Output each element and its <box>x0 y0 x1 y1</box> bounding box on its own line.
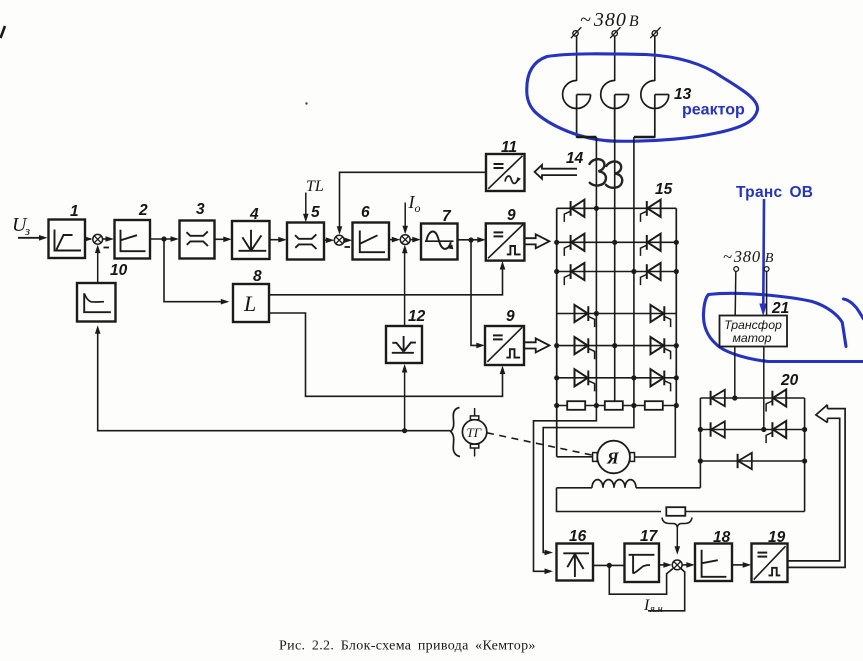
block 8 logic L <box>233 284 269 322</box>
wire block8 bottom output to block9 lower bottom <box>269 313 503 396</box>
block 3 limiter <box>180 221 215 259</box>
terminal phase 1 <box>573 31 578 36</box>
wire transformer left lead to row1 <box>734 347 736 399</box>
thyristor VS2b <box>646 235 648 250</box>
block 16 EMF sensor <box>557 544 594 581</box>
svg-text:15: 15 <box>655 181 673 198</box>
terminal phase 3 <box>652 31 657 36</box>
wire tacho feedback into block10 <box>98 329 451 431</box>
thyristor VS3a <box>570 264 572 279</box>
block20 row2 wire <box>700 429 804 431</box>
bridge left rail <box>556 208 558 456</box>
wire choke line left part <box>557 487 593 489</box>
block 18 regulator <box>695 544 732 582</box>
hollow arrow block9 upper to bridge <box>524 234 549 248</box>
thyristor VS5b <box>663 338 665 353</box>
block20 dots <box>732 395 737 400</box>
wire U3 input <box>18 237 44 239</box>
terminal phase 2 <box>612 31 617 36</box>
thyristor VS6b <box>663 371 665 386</box>
bridge row 5 wire <box>557 345 677 347</box>
wire terminal to transformer left <box>734 271 737 315</box>
wire block12 output up into S3 <box>404 248 406 326</box>
svg-text:реактор: реактор <box>682 102 745 119</box>
svg-text:1: 1 <box>70 203 79 220</box>
svg-text:Я: Я <box>606 449 620 468</box>
motor armature Ya <box>597 441 630 474</box>
block20 row3 wire <box>700 460 804 462</box>
wire phase A jog <box>577 136 597 138</box>
handwritten mark ZZ <box>590 159 606 185</box>
wire left rail to motor <box>557 456 593 458</box>
resistor R2 <box>605 401 623 410</box>
resistor R1 <box>567 401 585 410</box>
thyristor VS1a <box>570 201 572 216</box>
wire terminal 1 to reactor <box>576 36 578 81</box>
junction after block16 <box>607 563 612 568</box>
summing junction S4 <box>672 560 682 570</box>
wire block10 up into S1 <box>97 248 99 283</box>
svg-text:матор: матор <box>732 331 771 345</box>
block 1 ramp generator <box>49 220 86 259</box>
wire choke line right part <box>636 487 700 489</box>
wire phase B down <box>614 95 616 402</box>
bridge row 4 wire <box>557 313 677 315</box>
wire shunt signal down into S4 <box>676 528 678 552</box>
blue freehand loop around reactors <box>527 54 758 141</box>
thyristor VS20a <box>771 391 773 406</box>
wire choke down to shunt line <box>557 488 662 512</box>
svg-text:21: 21 <box>771 300 789 317</box>
svg-text:Трансфор: Трансфор <box>724 318 782 332</box>
reactor L3 (13) winding <box>641 81 669 109</box>
tachogenerator TG brace <box>451 408 460 457</box>
block 4 <box>232 221 270 259</box>
wire TL input down into block5 <box>305 193 307 219</box>
bridge row 1 wire <box>557 207 677 209</box>
wire terminal to transformer right <box>766 271 768 315</box>
summing junction S1 <box>93 234 103 244</box>
bridge row 2 wire <box>557 241 677 243</box>
svg-text:~380В: ~380В <box>580 9 640 31</box>
scan speck near TL <box>305 102 307 104</box>
svg-text:o: o <box>415 201 421 215</box>
wire into block9 lower from junction <box>471 240 482 345</box>
summing junction S2 <box>334 235 344 245</box>
minus sign at S1 <box>104 247 110 249</box>
wire block8 top output to block9 upper bottom <box>269 265 503 295</box>
resistor row dots <box>554 403 559 408</box>
wire motor right to right rail <box>635 406 676 458</box>
reactor L1 (13) winding <box>563 81 591 109</box>
reactor L2 (13) winding <box>601 81 629 109</box>
svg-text:ТГ: ТГ <box>467 425 482 440</box>
wire block7 to block9 <box>458 239 483 241</box>
svg-text:3: 3 <box>196 201 205 218</box>
block 2 PI regulator <box>115 220 151 259</box>
bridge row 3 wire <box>557 271 677 273</box>
wire phase C down <box>633 137 635 406</box>
thyristor VS4a <box>587 306 589 321</box>
svg-text:9: 9 <box>507 207 516 224</box>
block 9 lower pulse converter <box>485 326 524 365</box>
wire block4 to block5 <box>270 239 284 241</box>
svg-text:10: 10 <box>110 262 128 279</box>
svg-text:8: 8 <box>253 268 262 285</box>
diode VD2 <box>710 422 712 436</box>
thyristor VS1b <box>646 201 648 216</box>
resistor R3 <box>645 401 663 410</box>
block 19 pulse converter <box>752 544 788 583</box>
bridge right rail <box>675 208 677 405</box>
wire shunt to block20 right rail <box>685 511 804 513</box>
block20 right rail <box>804 398 806 512</box>
block20 left rail <box>699 398 701 488</box>
bridge row 6 wire <box>557 377 677 379</box>
svg-text:я.н: я.н <box>649 604 663 615</box>
thyristor VS3b <box>646 264 648 279</box>
wire feedback from block11 down into S2 <box>340 172 487 228</box>
svg-text:ТрансОВ: ТрансОВ <box>736 184 813 201</box>
block 17 filter <box>625 544 660 583</box>
wire block1 to S1 <box>85 238 91 240</box>
wire phase A down <box>595 137 597 406</box>
wire S1 to block2 <box>103 238 111 240</box>
block20 row1 wire <box>700 397 804 399</box>
wire S2 to block6 <box>344 239 349 241</box>
thyristor VS6a <box>587 371 589 386</box>
shunt resistor <box>666 507 685 516</box>
tachogenerator TG <box>462 420 486 444</box>
thyristor VS2a <box>570 235 572 250</box>
minus sign at S2 <box>345 246 351 248</box>
svg-text:L: L <box>243 291 256 316</box>
wire block16 to block17 <box>593 564 625 566</box>
junction after block7 <box>468 237 473 242</box>
hollow arrow 14 into block 11 <box>535 165 577 179</box>
wire terminal 2 to reactor <box>614 36 616 81</box>
brace under shunt <box>662 518 692 528</box>
svg-text:Рис. 2.2. Блок-схема привода «: Рис. 2.2. Блок-схема привода «Кемтор» <box>279 639 536 654</box>
block 11 DC-AC converter <box>486 154 525 191</box>
diode VD3 <box>737 454 739 468</box>
svg-text:12: 12 <box>408 308 426 325</box>
smoothing choke <box>592 480 636 488</box>
block 6 regulator <box>353 223 390 260</box>
wire block3 to block4 <box>215 238 229 240</box>
block 7 sine shaper <box>421 224 458 260</box>
svg-text:6: 6 <box>361 204 370 221</box>
svg-text:14: 14 <box>566 150 584 167</box>
svg-text:з: з <box>24 223 30 238</box>
terminal transformer right <box>764 267 769 272</box>
thyristor VS4b <box>663 306 665 321</box>
block 5 limiter <box>287 223 324 260</box>
summing junction S3 <box>400 235 410 245</box>
transformer block 21 <box>720 316 788 347</box>
resistor row wire <box>557 405 677 407</box>
wire block6 to S3 <box>389 239 397 241</box>
block 10 speed feedback filter <box>77 283 116 322</box>
dashed shaft line TG to motor <box>487 433 593 455</box>
hollow arrow loop block19 to block20 <box>788 405 845 568</box>
blue arrow down to transformer <box>762 199 765 305</box>
thyristor VS5a <box>587 338 589 353</box>
junction after block2 <box>161 236 166 241</box>
wire tap phase A to block16 lower input <box>534 406 597 572</box>
svg-text:TL: TL <box>306 178 324 195</box>
wire S4 to block18 <box>682 564 691 566</box>
junction feedback/block12 <box>402 428 407 433</box>
blue freehand loop around transformer 21 <box>703 293 863 361</box>
wire feedback up into block12 <box>404 368 406 431</box>
svg-text:2: 2 <box>138 202 148 219</box>
terminal transformer left <box>734 267 739 272</box>
svg-text:13: 13 <box>674 86 692 103</box>
wire terminal 3 to reactor <box>654 36 656 81</box>
wire Io input into S3 <box>404 203 406 228</box>
bridge junction dots <box>594 206 599 211</box>
wire S3 to block7 <box>410 239 417 241</box>
block 9 upper pulse converter <box>486 223 525 260</box>
svg-text:20: 20 <box>780 372 799 389</box>
hollow arrow block9 lower to bridge <box>524 338 549 352</box>
wire transformer right lead to row2 <box>763 347 765 430</box>
diode VD1 <box>710 391 712 405</box>
wire block17 to S4 <box>659 564 669 566</box>
scan speck top-left edge <box>1 26 6 38</box>
wire bypass under block17 <box>609 565 673 594</box>
thyristor VS20b <box>771 422 773 437</box>
wire chain tap down to block8 <box>164 239 226 302</box>
wire I_ya.n input into S4 <box>648 569 685 611</box>
wire block2 to block3 <box>150 238 176 240</box>
wire block18 to block19 <box>732 564 748 566</box>
wire tap phase C to block16 upper input <box>543 406 634 553</box>
svg-text:9: 9 <box>506 308 515 325</box>
wire block5 to S2 <box>324 239 331 241</box>
block 12 <box>386 326 422 363</box>
wire phase C jog <box>634 136 655 138</box>
svg-text:5: 5 <box>311 204 320 221</box>
